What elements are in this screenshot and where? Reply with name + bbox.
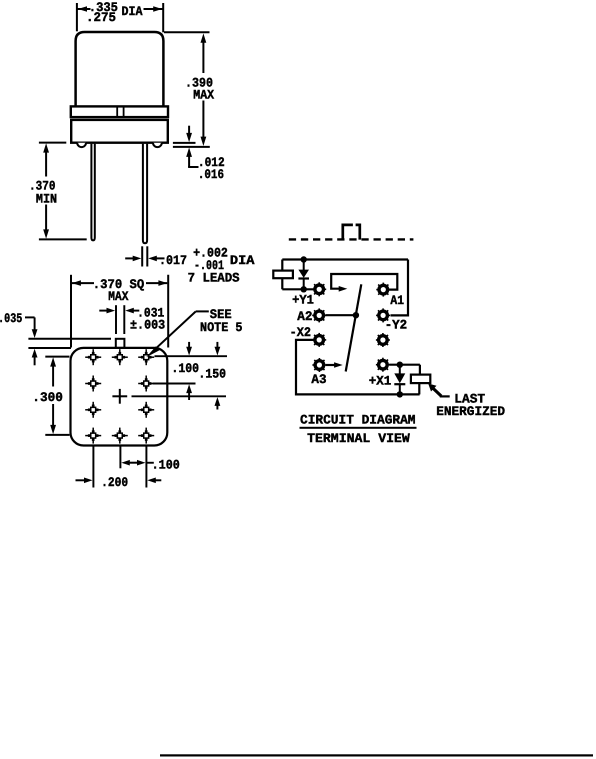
pin 7 xyxy=(138,402,154,418)
dashed reference line xyxy=(289,238,414,240)
pin 2 xyxy=(112,349,128,365)
dimension .031 tab width xyxy=(99,305,139,334)
diode CR1 xyxy=(298,260,309,290)
node junction top xyxy=(301,256,307,262)
pin 10 xyxy=(138,428,154,444)
svg-text:DIA: DIA xyxy=(122,4,143,19)
dimension .300 xyxy=(45,357,69,435)
wire down to coil K2 xyxy=(419,365,421,375)
node +X1 bottom xyxy=(397,391,403,397)
dimension .390 MAX xyxy=(164,32,210,138)
weld bump left xyxy=(77,143,86,147)
armature pivot node xyxy=(353,312,359,318)
dimension .100 row pitch xyxy=(188,342,190,400)
dimension .370 MIN xyxy=(39,143,87,240)
node +X1 top xyxy=(397,362,403,368)
lead right xyxy=(143,144,147,244)
tab top plane line xyxy=(28,338,111,340)
terminal +Y1 xyxy=(312,282,326,296)
svg-text:+X1: +X1 xyxy=(369,373,392,388)
svg-text:A2: A2 xyxy=(297,309,312,324)
dimension .012/.016 xyxy=(188,126,198,167)
standoff plane line xyxy=(173,146,210,148)
A1 contact arrow xyxy=(339,286,348,292)
A3 contact wire xyxy=(326,364,336,366)
svg-text:A3: A3 xyxy=(311,372,326,387)
wire coil K2 to bottom xyxy=(418,383,420,394)
pin 6 xyxy=(85,402,101,418)
last energized leader xyxy=(440,395,450,397)
terminal -X2 xyxy=(312,333,326,347)
dimension .017 lead dia xyxy=(125,246,164,266)
terminal -Y2 xyxy=(376,308,390,322)
svg-text:ENERGIZED: ENERGIZED xyxy=(436,404,505,419)
terminal +X1 xyxy=(376,358,390,372)
svg-text:DIA: DIA xyxy=(230,253,255,268)
svg-text:.275: .275 xyxy=(86,10,116,25)
dimension .370 SQ MAX xyxy=(71,275,168,348)
center cross xyxy=(112,395,127,397)
diode CR2 xyxy=(394,365,405,395)
svg-text:-X2: -X2 xyxy=(290,325,312,340)
svg-text:A1: A1 xyxy=(390,293,404,308)
svg-text:.100: .100 xyxy=(152,457,180,472)
pin 8 xyxy=(85,428,101,444)
index tab xyxy=(116,339,125,348)
dimension .150 xyxy=(216,342,218,410)
can flange xyxy=(71,106,168,117)
terminal spare xyxy=(376,333,390,347)
svg-text:MIN: MIN xyxy=(36,191,57,206)
svg-text:NOTE 5: NOTE 5 xyxy=(200,320,243,335)
wire +X1 right xyxy=(389,364,420,366)
svg-text:.035: .035 xyxy=(0,311,22,326)
svg-text:-Y2: -Y2 xyxy=(385,318,408,333)
A3 contact arrow xyxy=(334,362,343,368)
pin 9 xyxy=(112,428,128,444)
wire coil branch xyxy=(281,260,283,290)
pin 3 xyxy=(138,349,154,365)
terminal A3 xyxy=(312,358,326,372)
svg-text:.150: .150 xyxy=(198,367,226,382)
svg-text:MAX: MAX xyxy=(108,289,128,304)
flange crimp notch xyxy=(116,106,118,117)
lead left xyxy=(91,144,94,241)
terminal A1 xyxy=(376,283,390,297)
svg-text:.200: .200 xyxy=(101,475,128,490)
wire top xyxy=(282,258,408,260)
svg-text:.016: .016 xyxy=(198,167,224,182)
armature (movable contact) xyxy=(346,284,362,371)
svg-text:.017: .017 xyxy=(159,253,187,268)
see note 5 leader xyxy=(156,311,209,348)
wire to +Y1 xyxy=(282,288,313,290)
can base xyxy=(71,120,168,143)
footer rule xyxy=(160,754,593,756)
package square (terminal view) xyxy=(71,348,168,446)
pin 4 xyxy=(85,376,101,392)
svg-text:MAX: MAX xyxy=(193,87,214,102)
dimension .100 column pitch xyxy=(121,457,180,472)
dimension .200 xyxy=(76,479,162,481)
coil K2 xyxy=(411,375,430,384)
pin 5 xyxy=(138,376,154,392)
pin 1 xyxy=(85,349,101,365)
svg-text:TERMINAL VIEW: TERMINAL VIEW xyxy=(307,431,410,446)
svg-text:CIRCUIT DIAGRAM: CIRCUIT DIAGRAM xyxy=(300,412,416,427)
svg-text:+Y1: +Y1 xyxy=(292,293,314,308)
wire right vertical to -Y2 xyxy=(391,260,409,316)
wire -X2 down to bottom xyxy=(296,340,420,395)
dimension .335/.275 DIA xyxy=(77,3,163,32)
svg-text:7 LEADS: 7 LEADS xyxy=(188,270,240,285)
pulse symbol xyxy=(343,225,353,240)
square top plane line xyxy=(28,347,71,349)
weld bump right xyxy=(153,143,162,147)
relay can body xyxy=(76,32,164,107)
column extension lines bottom xyxy=(93,447,146,488)
seating plane line xyxy=(173,142,196,144)
terminal A2 xyxy=(312,308,326,322)
svg-text:.300: .300 xyxy=(32,390,63,405)
dimension .035 tab height xyxy=(25,317,35,365)
row extension lines right xyxy=(132,356,228,396)
A1 fixed contact bracket xyxy=(331,274,397,290)
node junction bottom xyxy=(301,286,307,292)
svg-text:±.003: ±.003 xyxy=(130,317,165,332)
wire A2 to pivot xyxy=(326,314,356,316)
svg-text:.100: .100 xyxy=(171,361,199,376)
coil K1 xyxy=(273,271,293,279)
